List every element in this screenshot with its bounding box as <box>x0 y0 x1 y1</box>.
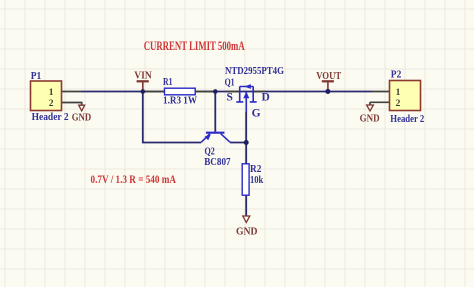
svg-text:Header 2: Header 2 <box>32 112 69 123</box>
svg-text:0.7V / 1.3 R = 540 mA: 0.7V / 1.3 R = 540 mA <box>91 174 177 186</box>
svg-text:R1: R1 <box>163 77 173 88</box>
svg-text:1: 1 <box>49 88 54 98</box>
svg-text:GND: GND <box>72 112 92 123</box>
svg-text:2: 2 <box>49 99 54 109</box>
svg-text:R2: R2 <box>250 164 261 175</box>
svg-text:Q1: Q1 <box>225 78 235 89</box>
svg-text:NTD2955PT4G: NTD2955PT4G <box>225 66 284 77</box>
svg-text:CURRENT LIMIT 500mA: CURRENT LIMIT 500mA <box>144 39 245 53</box>
svg-text:2: 2 <box>396 99 401 109</box>
svg-text:BC807: BC807 <box>204 157 230 168</box>
svg-text:P2: P2 <box>391 70 402 81</box>
svg-text:GND: GND <box>236 227 258 238</box>
svg-text:10k: 10k <box>250 175 263 186</box>
svg-text:S: S <box>227 91 233 103</box>
svg-text:P1: P1 <box>31 71 42 82</box>
svg-text:GND: GND <box>360 113 380 124</box>
svg-text:Header 2: Header 2 <box>390 114 424 125</box>
svg-text:G: G <box>252 108 261 120</box>
svg-text:1: 1 <box>396 88 401 98</box>
svg-text:D: D <box>262 91 270 103</box>
svg-text:VIN: VIN <box>134 71 152 82</box>
svg-text:VOUT: VOUT <box>316 71 341 82</box>
svg-text:1.R3 1W: 1.R3 1W <box>163 95 197 106</box>
